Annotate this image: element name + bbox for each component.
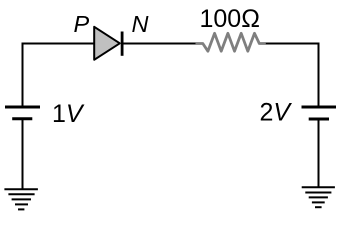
diode D1 triangle (anode) [94,27,120,60]
wire: battery V2 to right ground [318,120,320,187]
wire: battery V1 to left ground [22,120,24,189]
diode D1 cathode bar [121,32,124,56]
ground (left) [4,189,38,209]
wire: left vertical from corner down to battery V1 [22,43,24,107]
battery V1 long plate (+) [5,106,40,109]
svg-text:100Ω: 100Ω [200,5,260,33]
svg-text:2V: 2V [260,99,293,127]
battery V1 short plate (-) [12,117,32,120]
svg-text:1V: 1V [52,100,85,128]
ground (right) [302,187,335,207]
battery V2 short plate (-) [309,118,329,121]
wire: top-left horizontal from corner to diode anode [22,43,96,45]
svg-text:P: P [74,11,90,37]
wire: right vertical from corner down to battery V2 [318,43,320,107]
battery V2 long plate (+) [302,106,337,109]
resistor R1 zigzag [196,33,266,51]
wire: resistor to top-right corner [266,43,320,45]
wire: diode cathode to resistor [123,43,197,45]
svg-text:N: N [132,11,149,37]
